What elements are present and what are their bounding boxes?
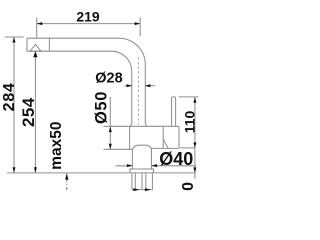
base flange bbox=[130, 169, 154, 173]
body top edge bbox=[104, 125, 180, 127]
arrow Ø50 down bbox=[109, 144, 112, 150]
aerator triangle bbox=[30, 44, 41, 51]
arrow 254 down bbox=[34, 167, 37, 173]
dim leader Ø40 left bbox=[116, 165, 133, 167]
svg-text:Ø40: Ø40 bbox=[159, 149, 193, 169]
dim leader Ø40 right bbox=[152, 165, 197, 167]
arrow 0 down bbox=[193, 167, 196, 173]
arrow 284 down bbox=[13, 167, 16, 173]
dim line Ø50 bbox=[109, 97, 111, 149]
arrow Ø50 up bbox=[109, 127, 112, 133]
shank and hose lines bbox=[132, 173, 153, 189]
dim leader Ø28 left bbox=[125, 85, 133, 87]
body dome arch bbox=[132, 145, 152, 150]
ext line body bottom right bbox=[180, 147, 196, 149]
hose arrow right bbox=[145, 188, 151, 191]
body bottom-right edge bbox=[152, 147, 180, 149]
svg-text:110: 110 bbox=[181, 110, 197, 133]
ext line 284 top bbox=[5, 36, 24, 38]
arrow Ø28 right bbox=[127, 84, 133, 87]
ext line 219 left bbox=[36, 18, 38, 38]
svg-text:0: 0 bbox=[180, 182, 197, 191]
arrow max50 up bbox=[65, 173, 68, 180]
dim line 110/0 right bbox=[194, 97, 196, 179]
svg-text:254: 254 bbox=[19, 97, 38, 127]
svg-text:Ø28: Ø28 bbox=[95, 70, 122, 86]
handle front edge bbox=[162, 126, 164, 148]
arrow 110 down at body bottom bbox=[193, 142, 196, 148]
arrow 219 left bbox=[37, 22, 43, 25]
dim line 284 bbox=[13, 37, 15, 173]
body left edge bbox=[129, 126, 131, 149]
outlet divider line bbox=[48, 38, 50, 51]
arrow Ø40 right bbox=[127, 164, 132, 167]
arrow 219 right bbox=[135, 22, 141, 25]
column left edge bbox=[131, 149, 133, 169]
handle pin bbox=[172, 97, 176, 126]
svg-text:Ø50: Ø50 bbox=[93, 91, 111, 124]
hose arrow left bbox=[133, 188, 139, 191]
svg-text:284: 284 bbox=[1, 82, 18, 111]
counter line bbox=[7, 172, 196, 174]
dim leader Ø28 right bbox=[145, 85, 155, 87]
arrow 110 up bbox=[193, 97, 196, 103]
column right edge bbox=[151, 149, 153, 169]
svg-text:max50: max50 bbox=[48, 122, 65, 170]
pipe centerline bbox=[138, 57, 140, 125]
spout outline bbox=[27, 38, 147, 126]
body bottom-left edge + extension bbox=[104, 148, 133, 150]
arrow Ø40 left bbox=[152, 164, 158, 167]
handle tip diagonal bbox=[163, 139, 168, 148]
body right edge bbox=[178, 126, 180, 148]
ext line handle top bbox=[179, 96, 199, 98]
arrow Ø28 left bbox=[145, 84, 151, 87]
shank bottom line bbox=[132, 189, 153, 191]
max50 dashed stem bbox=[66, 180, 68, 185]
svg-text:219: 219 bbox=[76, 9, 100, 25]
arrow aerator up bbox=[33, 51, 37, 57]
arrow 284 up bbox=[13, 37, 16, 43]
dim line 219 bbox=[37, 23, 140, 25]
dim line 254 / outlet axis bbox=[34, 51, 36, 172]
ext line 219 right bbox=[139, 18, 141, 36]
